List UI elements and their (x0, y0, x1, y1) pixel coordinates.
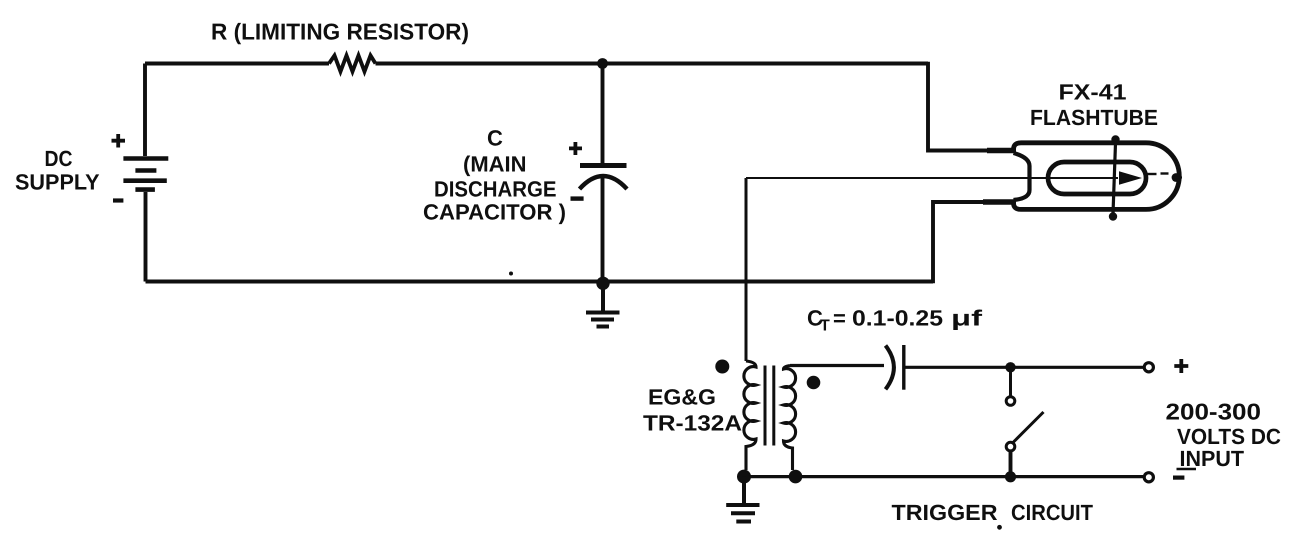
flashtube cathode lead (983, 199, 1016, 204)
axis dash 1 (1148, 173, 1157, 175)
wire transformer secondary top to capacitor CT (790, 364, 884, 367)
svg-text:200-300: 200-300 (1166, 399, 1262, 425)
transformer core (765, 366, 774, 446)
capacitor minus sign (571, 196, 584, 200)
axis end dot (1172, 173, 1181, 182)
svg-text:0.1-0.25: 0.1-0.25 (852, 306, 943, 331)
wire top middle (376, 62, 603, 66)
svg-text:R (LIMITING RESISTOR): R (LIMITING RESISTOR) (211, 19, 469, 45)
capacitor plus sign (569, 142, 582, 155)
trigger wrap blob bottom (1109, 212, 1117, 220)
stray underscore before INPUT (1177, 468, 1197, 471)
wire top left horizontal (145, 62, 329, 66)
node junction bottom (capacitor/ground) (596, 277, 609, 290)
wire trigger vertical (transformer to flashtube axis) (745, 178, 748, 361)
transformer T1 right winding (784, 366, 796, 471)
switch lower stem (1009, 451, 1013, 477)
wire trigger horizontal axis line (746, 177, 1118, 179)
svg-text:T: T (820, 318, 830, 335)
flashtube inner electrode stadium (1048, 162, 1146, 194)
resistor R (limiting resistor) (329, 56, 376, 72)
capacitor CT straight plate (902, 345, 905, 390)
node junction transformer left bottom (737, 470, 751, 484)
stray dot artifact left of junction (509, 272, 513, 276)
svg-text:(MAIN: (MAIN (463, 152, 527, 177)
capacitor C top plate (580, 163, 627, 168)
svg-text:FX-41: FX-41 (1059, 80, 1127, 105)
svg-text:DISCHARGE: DISCHARGE (434, 177, 557, 202)
capacitor C curved plate (580, 176, 628, 189)
node junction top (resistor/capacitor branch) (597, 58, 608, 69)
stray dot under trigger circuit label (997, 525, 1002, 530)
transformer T1 left winding (744, 361, 756, 470)
wire left vertical upper (143, 64, 147, 157)
svg-text:INPUT: INPUT (1180, 446, 1245, 471)
terminal plus (input) (1144, 363, 1153, 372)
wire right branch bottom (to flashtube cathode) (933, 202, 986, 283)
capacitor CT curved plate (886, 346, 894, 390)
ground main (below capacitor junction) (586, 284, 620, 327)
terminal minus (input) (1144, 473, 1153, 482)
switch upper stem (1009, 367, 1012, 396)
battery DC supply (123, 159, 168, 190)
flashtube anode lead (987, 148, 1016, 153)
switch upper contact (1006, 397, 1015, 406)
svg-text:TRIGGER: TRIGGER (892, 500, 998, 525)
svg-text:C: C (487, 126, 503, 151)
svg-text:SUPPLY: SUPPLY (15, 170, 100, 195)
axis arrowhead (1119, 171, 1142, 185)
switch blade (1013, 412, 1044, 443)
wire CT to plus terminal (904, 366, 1144, 369)
svg-text:DC: DC (45, 146, 73, 171)
flashtube envelope pinch (1014, 153, 1030, 200)
axis dash 2 (1161, 172, 1169, 174)
flashtube trigger wrap wire (1113, 138, 1116, 220)
wire capacitor branch vertical upper (601, 64, 605, 164)
input plus sign (1174, 359, 1188, 373)
svg-text:TR-132A: TR-132A (643, 411, 742, 436)
wire left vertical lower (144, 192, 148, 282)
svg-text:CIRCUIT: CIRCUIT (1011, 500, 1094, 525)
node junction switch top (1005, 362, 1015, 372)
battery minus sign (113, 198, 123, 202)
svg-text:μf: μf (951, 306, 983, 331)
switch lower contact (1006, 442, 1015, 451)
wire trigger bottom return (744, 475, 1144, 478)
svg-text:CAPACITOR ): CAPACITOR ) (423, 200, 566, 225)
wire bottom main (146, 280, 934, 284)
wire right branch top (to flashtube anode) (928, 62, 990, 151)
node junction switch bottom (1005, 471, 1016, 482)
svg-text:FLASHTUBE: FLASHTUBE (1030, 105, 1158, 130)
wire capacitor branch vertical lower (601, 177, 605, 282)
node junction transformer right bottom (789, 470, 803, 484)
input minus sign (1173, 476, 1184, 480)
transformer polarity dot left (715, 360, 729, 374)
flashtube FX-41 envelope (1014, 143, 1180, 210)
battery plus sign (112, 134, 126, 148)
trigger wrap blob top (1111, 135, 1119, 143)
axis end stub (1173, 176, 1182, 178)
wire top right (603, 62, 929, 66)
transformer polarity dot right (807, 376, 821, 390)
svg-text:EG&G: EG&G (648, 385, 716, 410)
svg-text:=: = (833, 306, 846, 331)
ground trigger (below transformer) (726, 477, 759, 522)
